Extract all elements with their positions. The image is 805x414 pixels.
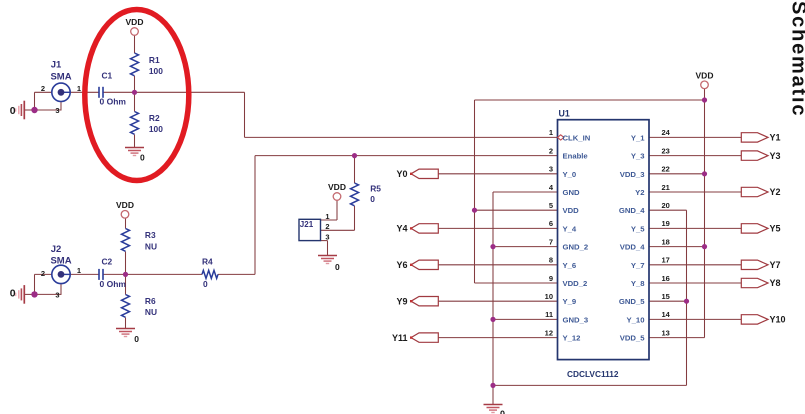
svg-text:Y8: Y8: [770, 278, 781, 288]
svg-text:C2: C2: [102, 257, 113, 267]
svg-text:19: 19: [662, 219, 670, 228]
svg-text:J1: J1: [51, 60, 62, 71]
svg-text:GND_2: GND_2: [563, 243, 589, 252]
svg-text:VDD_5: VDD_5: [620, 334, 646, 343]
svg-text:9: 9: [549, 274, 553, 283]
svg-text:0 Ohm: 0 Ohm: [100, 279, 127, 289]
svg-text:Y11: Y11: [392, 333, 408, 343]
svg-text:0: 0: [134, 334, 139, 344]
svg-text:SMA: SMA: [50, 256, 71, 267]
svg-text:13: 13: [662, 328, 670, 337]
svg-text:VDD: VDD: [696, 70, 714, 80]
svg-text:Y2: Y2: [635, 188, 644, 197]
svg-text:Schematic: Schematic: [788, 1, 805, 117]
svg-text:NU: NU: [145, 241, 157, 251]
svg-text:Y_12: Y_12: [563, 334, 581, 343]
svg-text:2: 2: [325, 222, 329, 231]
svg-text:14: 14: [662, 310, 671, 319]
svg-text:16: 16: [662, 274, 670, 283]
svg-text:Y_1: Y_1: [631, 133, 645, 142]
svg-text:J21: J21: [300, 220, 314, 229]
svg-text:23: 23: [662, 146, 670, 155]
svg-text:3: 3: [325, 232, 329, 241]
svg-text:12: 12: [545, 328, 553, 337]
svg-text:Y9: Y9: [396, 296, 407, 306]
svg-text:10: 10: [545, 292, 553, 301]
svg-text:1: 1: [325, 212, 329, 221]
svg-text:0: 0: [335, 262, 340, 272]
svg-text:NU: NU: [145, 307, 157, 317]
svg-text:Y_7: Y_7: [631, 261, 645, 270]
svg-text:VDD: VDD: [126, 17, 144, 27]
svg-text:U1: U1: [559, 109, 570, 119]
svg-text:2: 2: [41, 84, 45, 93]
svg-text:Y7: Y7: [770, 260, 781, 270]
svg-text:3: 3: [549, 165, 553, 174]
svg-text:GND: GND: [563, 188, 581, 197]
svg-text:17: 17: [662, 256, 670, 265]
svg-text:GND_4: GND_4: [619, 206, 645, 215]
svg-text:Y_4: Y_4: [563, 224, 577, 233]
svg-text:0: 0: [10, 288, 16, 300]
svg-text:2: 2: [41, 269, 45, 278]
svg-text:VDD: VDD: [563, 206, 580, 215]
svg-text:Y1: Y1: [770, 133, 781, 143]
svg-text:3: 3: [55, 106, 59, 115]
svg-text:Y_9: Y_9: [563, 297, 577, 306]
svg-text:1: 1: [77, 266, 81, 275]
svg-text:1: 1: [77, 84, 81, 93]
svg-text:R4: R4: [202, 257, 213, 267]
svg-text:SMA: SMA: [50, 72, 71, 83]
svg-text:Y_8: Y_8: [631, 279, 645, 288]
svg-text:Y10: Y10: [770, 315, 786, 325]
svg-text:2: 2: [549, 146, 553, 155]
svg-text:GND_3: GND_3: [563, 315, 589, 324]
svg-text:CDCLVC1112: CDCLVC1112: [567, 369, 619, 379]
svg-text:0: 0: [203, 279, 208, 289]
svg-text:Y_10: Y_10: [627, 315, 645, 324]
svg-text:R6: R6: [145, 296, 156, 306]
svg-text:0: 0: [140, 152, 145, 162]
svg-text:GND_5: GND_5: [619, 297, 645, 306]
svg-text:R3: R3: [145, 230, 156, 240]
svg-text:0 Ohm: 0 Ohm: [100, 97, 127, 107]
svg-text:Y0: Y0: [396, 169, 407, 179]
svg-text:0: 0: [10, 105, 16, 117]
svg-text:Y4: Y4: [396, 224, 407, 234]
svg-text:7: 7: [549, 237, 553, 246]
svg-text:Y_5: Y_5: [631, 224, 645, 233]
svg-text:0: 0: [370, 194, 375, 204]
svg-text:1: 1: [549, 128, 553, 137]
svg-text:Y3: Y3: [770, 151, 781, 161]
svg-text:CLK_IN: CLK_IN: [563, 133, 591, 142]
svg-text:R1: R1: [149, 55, 160, 65]
svg-text:J2: J2: [51, 244, 62, 255]
svg-text:18: 18: [662, 237, 670, 246]
svg-text:6: 6: [549, 219, 553, 228]
svg-text:R5: R5: [370, 183, 381, 193]
svg-text:VDD_3: VDD_3: [620, 170, 645, 179]
svg-text:24: 24: [662, 128, 671, 137]
svg-text:VDD: VDD: [328, 182, 346, 192]
svg-text:Y2: Y2: [770, 187, 781, 197]
svg-text:100: 100: [149, 66, 163, 76]
svg-text:Y_3: Y_3: [631, 152, 645, 161]
svg-text:20: 20: [662, 201, 670, 210]
svg-text:15: 15: [662, 292, 670, 301]
svg-text:R2: R2: [149, 113, 160, 123]
svg-text:Y6: Y6: [396, 260, 407, 270]
svg-text:C1: C1: [102, 71, 113, 81]
svg-text:3: 3: [55, 291, 59, 300]
svg-text:8: 8: [549, 256, 553, 265]
svg-text:Y5: Y5: [770, 224, 781, 234]
svg-text:VDD_4: VDD_4: [620, 243, 646, 252]
svg-text:11: 11: [545, 310, 553, 319]
svg-text:100: 100: [149, 124, 163, 134]
svg-text:VDD: VDD: [116, 200, 134, 210]
svg-text:21: 21: [662, 183, 670, 192]
svg-text:Enable: Enable: [563, 152, 589, 161]
svg-text:22: 22: [662, 165, 670, 174]
svg-text:VDD_2: VDD_2: [563, 279, 588, 288]
svg-text:Y_0: Y_0: [563, 170, 577, 179]
svg-text:0: 0: [500, 409, 505, 414]
svg-text:5: 5: [549, 201, 553, 210]
svg-text:Y_6: Y_6: [563, 261, 577, 270]
